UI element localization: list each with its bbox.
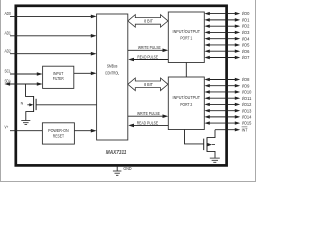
arrow SDA into input filter [37,82,43,86]
svg-text:INPUT/OUTPUT: INPUT/OUTPUT [173,95,201,100]
arrow I/O8 out [235,78,240,81]
arrow I/O10 into port2 [204,90,209,93]
svg-text:8 BIT: 8 BIT [144,82,153,87]
svg-text:V+: V+ [5,125,9,130]
svg-text:POWER-ON: POWER-ON [48,128,69,133]
main border box [16,6,227,166]
wire SCL [10,73,37,75]
svg-text:INT: INT [242,127,248,132]
transistor Q2 channel bar [206,137,208,152]
arrow I/O0 out [235,12,240,15]
block input/output port 1 [168,12,204,63]
arrow SCL into input filter [37,72,43,76]
transistor Q1 channel bar [33,96,35,112]
arrow I/O6 out [235,50,240,53]
arrow I/O12 into port2 [204,103,209,106]
block SMBus control U1 [97,14,128,140]
arrow I/O5 into port1 [204,43,209,46]
svg-text:AD1: AD1 [5,30,12,35]
arrow I/O10 out [235,90,240,93]
arrow I/O6 into port1 [204,50,209,53]
block input filter [43,66,74,88]
wire port1 to port2 [185,63,187,78]
arrow I/O11 out [235,96,240,99]
arrow I/O3 out [235,31,240,34]
svg-text:SCL: SCL [5,69,12,74]
wire read pulse port1 [133,59,168,61]
wire I/O10 [209,91,236,93]
ground under Q2 [210,158,220,162]
arrow AD0 into SMBus control [91,15,97,19]
arrow I/O13 out [235,109,240,112]
wire Q1 source to ground [26,112,34,121]
wire Q1 gate to SMBus control [36,104,97,106]
wire I/O3 [209,31,236,33]
svg-text:FILTER: FILTER [53,76,65,81]
svg-text:I/O14: I/O14 [242,114,252,119]
arrow I/O4 into port1 [204,37,209,40]
wire SDA [9,83,37,85]
wire I/O14 [209,116,236,118]
arrow I/O11 into port2 [204,96,209,99]
svg-text:I/O9: I/O9 [242,83,250,88]
wire I/O0 [209,13,236,15]
svg-text:I/O1: I/O1 [242,17,250,22]
svg-text:I/O5: I/O5 [242,43,250,48]
wire I/O15 [209,122,236,124]
wire I/O1 [209,19,236,21]
bus 8 bit to port1 [128,15,168,28]
arrow I/O8 into port2 [204,78,209,81]
arrow I/O1 into port1 [204,18,209,21]
svg-text:N: N [21,101,24,105]
svg-text:RESET: RESET [53,133,64,138]
wire I/O11 [209,97,236,99]
svg-text:PORT 2: PORT 2 [180,102,192,107]
wire I/O8 [209,79,236,81]
wire I/O9 [209,85,236,87]
wire port2 to Q2 gate [185,130,204,144]
block input/output port 2 [168,77,204,130]
wire I/O5 [209,44,236,46]
wire AD1 [10,35,91,37]
svg-text:I/O3: I/O3 [242,30,250,35]
svg-text:I/O12: I/O12 [242,102,252,107]
svg-text:I/O2: I/O2 [242,24,250,29]
bus 8 bit to port2 [128,78,168,91]
svg-text:SMBus: SMBus [107,64,118,69]
svg-text:PORT 1: PORT 1 [180,36,192,41]
wire I/O6 [209,50,236,52]
wire I/O4 [209,38,236,40]
svg-text:I/O0: I/O0 [242,11,250,16]
wire write pulse port2 [128,115,164,117]
arrow I/O15 out [235,121,240,124]
arrow AD1 into SMBus control [91,34,97,38]
svg-text:I/O13: I/O13 [242,108,252,113]
svg-text:MAX7311: MAX7311 [106,150,127,156]
arrow I/O9 out [235,84,240,87]
arrow I/O4 out [235,37,240,40]
svg-text:I/O11: I/O11 [242,96,252,101]
arrow I/O3 into port1 [204,31,209,34]
outer frame [1,0,256,182]
wire AD0 [10,15,91,17]
arrow I/O1 out [235,18,240,21]
arrow SDA out to pin [4,82,10,86]
wire AD2 [10,53,91,55]
wire read pulse port2 [133,124,168,126]
wire Q2 source to ground [207,151,215,158]
svg-text:SDA: SDA [5,79,11,84]
wire I/O13 [209,110,236,112]
arrow I/O2 into port1 [204,24,209,27]
svg-text:I/O8: I/O8 [242,77,250,82]
svg-text:CONTROL: CONTROL [105,71,119,76]
svg-text:AD0: AD0 [5,11,12,16]
arrow I/O13 into port2 [204,109,209,112]
wire Q2 drain to INT [207,130,215,138]
wire V+ [10,130,42,132]
wire SDA drop to Q1 drain [26,84,34,96]
arrow I/O7 into port1 [204,56,209,59]
ground under Q1 [21,121,30,125]
svg-text:WRITE PULSE: WRITE PULSE [138,45,161,51]
svg-text:READ PULSE: READ PULSE [137,55,158,61]
svg-text:GND: GND [123,166,131,171]
arrow I/O14 into port2 [204,115,209,118]
arrow I/O2 out [235,24,240,27]
svg-text:READ PULSE: READ PULSE [137,121,158,127]
wire input filter to SMBus control [74,72,91,74]
svg-text:I/O10: I/O10 [242,90,252,95]
transistor Q1 gate bar [35,99,37,110]
svg-text:WRITE PULSE: WRITE PULSE [137,111,160,117]
ground GND pin [113,166,122,176]
arrow I/O0 into port1 [204,12,209,15]
wire power-on reset to SMBus control [74,130,91,132]
arrow I/O15 into port2 [204,121,209,124]
arrow AD2 into SMBus control [91,52,97,56]
arrow I/O9 into port2 [204,84,209,87]
svg-text:I/O4: I/O4 [242,36,250,41]
arrow I/O14 out [235,115,240,118]
svg-text:AD2: AD2 [5,48,12,53]
transistor Q1 body arrow [27,104,29,106]
arrow I/O5 out [235,43,240,46]
svg-text:I/O15: I/O15 [242,121,252,126]
wire I/O7 [209,56,236,58]
wire I/O2 [209,25,236,27]
svg-text:8 BIT: 8 BIT [144,18,153,23]
wire write pulse port1 [128,49,164,51]
transistor Q2 body arrow [212,144,215,146]
svg-text:INPUT/OUTPUT: INPUT/OUTPUT [173,29,201,34]
arrow I/O12 out [235,103,240,106]
transistor Q2 gate bar [203,139,205,151]
svg-text:I/O6: I/O6 [242,49,250,54]
wire INT out [215,129,236,131]
svg-text:I/O7: I/O7 [242,55,250,60]
block power-on reset [42,123,74,144]
arrow I/O7 out [235,56,240,59]
wire I/O12 [209,103,236,105]
